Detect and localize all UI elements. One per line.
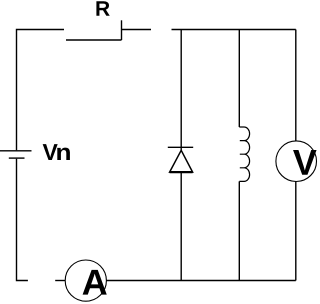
label V (voltmeter) — [293, 150, 317, 175]
inductor L1 coil — [239, 127, 249, 181]
voltmeter V circle — [276, 141, 317, 182]
voltmeter branch lower wire — [295, 182, 297, 281]
diode D1 triangle base (thick) — [170, 171, 193, 173]
battery Vn long plate — [0, 150, 32, 152]
diode D1 lower wire — [180, 172, 182, 280]
wire: left vertical top + top-left horizontal — [17, 30, 65, 151]
diode D1 triangle — [170, 150, 193, 172]
wire: dash before ammeter — [55, 280, 65, 282]
resistor R blade (lower segment) — [66, 39, 122, 41]
label A (ammeter) — [83, 270, 107, 295]
wire: left vertical lower + bottom-left stub — [17, 159, 28, 281]
inductor L1 upper wire — [238, 30, 240, 128]
diode D1 cathode bar — [168, 146, 193, 148]
label R — [96, 1, 109, 15]
wire: top segment from R to gap — [122, 29, 152, 31]
voltmeter branch upper wire — [295, 30, 297, 142]
inductor L1 lower wire — [238, 181, 240, 280]
resistor R tick (vertical) — [121, 20, 123, 40]
wire: top segment right of gap — [172, 29, 296, 31]
diode D1 upper wire — [180, 30, 182, 151]
wire: bottom horizontal — [106, 280, 295, 282]
ammeter A circle — [65, 260, 106, 301]
label Vn (V) — [43, 144, 58, 160]
label Vn (n) — [57, 148, 70, 160]
battery Vn short plate — [9, 157, 25, 159]
